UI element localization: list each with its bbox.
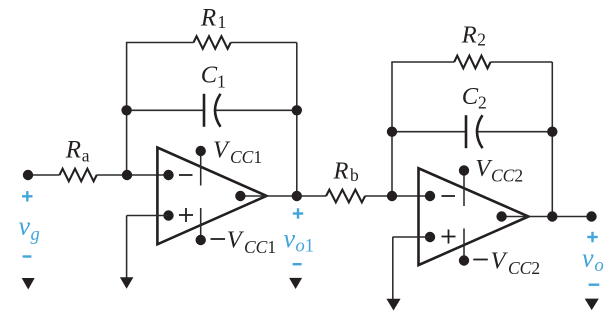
- label vo minus: [589, 284, 600, 286]
- wire U2 negative supply stub: [463, 229, 465, 261]
- wire U1 negative supply stub: [200, 208, 202, 240]
- op-amp U2 noninverting terminal: [425, 232, 435, 242]
- power VCC1: [196, 146, 206, 156]
- wire feedback2 right vertical: [551, 62, 553, 217]
- op-amp U1 inverting terminal: [163, 170, 173, 180]
- svg-text:CC1: CC1: [230, 147, 262, 167]
- wire U1 positive supply stub: [200, 151, 202, 186]
- svg-text:R: R: [65, 137, 81, 164]
- svg-text:V: V: [213, 136, 231, 163]
- svg-text:R: R: [461, 22, 477, 49]
- op-amp U1 noninverting terminal: [163, 210, 173, 220]
- wire C1 left: [127, 109, 203, 111]
- wire U1 output: [240, 195, 296, 197]
- resistor Rb: [326, 190, 365, 203]
- node C2 left junction: [387, 127, 397, 137]
- resistor Ra: [60, 169, 97, 182]
- ground U1 noninverting: [120, 277, 133, 289]
- wire U2 positive supply stub: [463, 171, 465, 207]
- svg-text:g: g: [31, 225, 40, 245]
- svg-text:a: a: [82, 146, 90, 166]
- ground U2 noninverting: [386, 299, 400, 311]
- wire U2 noninverting input: [393, 236, 430, 238]
- label vg minus: [23, 255, 32, 257]
- svg-text:v: v: [582, 244, 594, 273]
- ground vo: [585, 299, 599, 311]
- resistor R1: [194, 36, 231, 49]
- capacitor C1: [203, 94, 206, 127]
- label vg plus: [22, 195, 32, 197]
- node Ra feedback junction: [122, 170, 132, 180]
- svg-text:2: 2: [477, 30, 486, 50]
- power VCC2: [459, 165, 469, 175]
- node U2 output terminal: [496, 211, 506, 221]
- label vo plus: [587, 236, 597, 238]
- svg-text:b: b: [350, 165, 359, 185]
- op-amp U2 inverting terminal: [425, 191, 435, 201]
- wire feedback top right: [231, 42, 297, 44]
- wire Ra to junction and op-amp inverting input: [97, 174, 169, 176]
- svg-text:v: v: [19, 212, 31, 241]
- wire feedback top left: [126, 42, 194, 44]
- wire to ground below U2: [392, 237, 394, 300]
- wire feedback2 top right: [491, 61, 553, 63]
- wire vo1 to Rb: [297, 195, 326, 197]
- wire feedback2 top left: [391, 61, 454, 63]
- ground vo1: [289, 278, 302, 289]
- node vo1: [292, 191, 302, 201]
- node Rb feedback junction: [387, 191, 397, 201]
- node output terminal vo: [586, 211, 596, 221]
- svg-text:1: 1: [218, 12, 227, 32]
- svg-text:1: 1: [217, 72, 226, 92]
- svg-text:R: R: [333, 158, 349, 185]
- svg-text:CC1: CC1: [244, 237, 276, 257]
- svg-text:CC2: CC2: [508, 258, 540, 278]
- svg-text:V: V: [491, 248, 509, 275]
- node C1 right junction: [292, 105, 302, 115]
- ground vg: [22, 278, 35, 290]
- wire input to Ra: [28, 174, 60, 176]
- wire feedback left vertical: [126, 43, 128, 176]
- wire U1 noninverting input: [127, 215, 169, 217]
- node C2 right junction: [547, 127, 557, 137]
- wire Rb to junction and U2 inverting input: [365, 195, 430, 197]
- node C1 left junction: [121, 105, 131, 115]
- svg-text:V: V: [227, 226, 245, 253]
- wire U2 output: [502, 216, 592, 218]
- svg-text:R: R: [200, 4, 216, 31]
- op-amp U1: [157, 148, 266, 245]
- svg-text:o: o: [595, 256, 604, 276]
- wire to ground below U1: [126, 216, 128, 279]
- svg-text:C: C: [201, 61, 218, 88]
- node input terminal vg: [23, 170, 33, 180]
- label vo1 plus: [293, 212, 303, 214]
- wire C2 left: [392, 131, 465, 133]
- svg-text:2: 2: [478, 93, 487, 113]
- resistor R2: [454, 56, 490, 69]
- node U1 output terminal: [235, 191, 245, 201]
- svg-text:v: v: [284, 224, 296, 253]
- wire feedback2 left vertical: [391, 62, 393, 196]
- svg-text:CC2: CC2: [491, 166, 523, 186]
- power -VCC1: [196, 235, 206, 245]
- wire feedback right vertical: [296, 43, 298, 197]
- svg-text:C: C: [462, 83, 479, 110]
- wire C1 right: [216, 109, 297, 111]
- label vo1 minus: [293, 263, 302, 265]
- op-amp U2: [419, 168, 529, 265]
- power -VCC2: [459, 255, 469, 265]
- capacitor C2: [465, 115, 468, 148]
- svg-text:o1: o1: [296, 237, 315, 257]
- node feedback2 output junction: [547, 211, 557, 221]
- wire C2 right: [478, 131, 553, 133]
